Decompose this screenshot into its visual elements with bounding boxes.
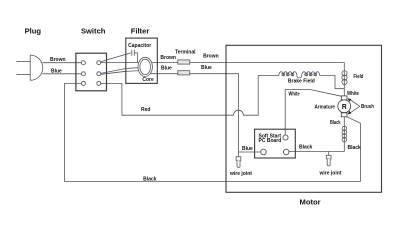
- terminal block upper: [178, 60, 190, 64]
- svg-text:Black: Black: [330, 120, 341, 126]
- wire brown plug-switch: [43, 62, 82, 64]
- wire switch to capacitor: [101, 53, 131, 62]
- wire blue PC board: [238, 151, 260, 153]
- wire brown terminal to field coil: [190, 63, 344, 71]
- wire blue switch-filter: [101, 67, 146, 74]
- switch S1: [76, 53, 107, 91]
- motor box: [226, 45, 382, 192]
- svg-text:White: White: [289, 91, 300, 97]
- svg-text:White: White: [347, 91, 359, 97]
- wire joint left: [236, 157, 241, 168]
- bottom brush: [341, 113, 347, 117]
- wire red switch-brake field: [101, 76, 279, 116]
- svg-text:Blue: Blue: [51, 69, 62, 75]
- svg-text:Plug: Plug: [25, 27, 42, 36]
- svg-text:Black: Black: [299, 145, 313, 151]
- svg-text:Black: Black: [348, 145, 362, 151]
- wire black coil to PC board: [289, 142, 344, 151]
- soft start PC board U1: [255, 129, 296, 158]
- svg-text:wire joint: wire joint: [229, 171, 252, 177]
- wire blue terminal to wire joint: [190, 74, 239, 157]
- svg-text:Blue: Blue: [161, 65, 172, 71]
- PC board pin left: [261, 149, 267, 155]
- svg-text:Blue: Blue: [242, 146, 253, 152]
- wire joint right: [326, 151, 331, 166]
- svg-text:Brake Field: Brake Field: [288, 78, 315, 84]
- filter box: [126, 38, 158, 83]
- wire blue plug-switch: [42, 73, 81, 75]
- svg-text:Terminal: Terminal: [175, 49, 196, 55]
- svg-text:Filter: Filter: [131, 26, 150, 35]
- svg-text:Brown: Brown: [160, 55, 176, 61]
- svg-text:Capacitor: Capacitor: [128, 43, 151, 49]
- svg-text:Switch: Switch: [81, 26, 106, 35]
- brush pointer arrows: [348, 98, 360, 114]
- top brush: [341, 96, 347, 100]
- svg-text:Armature: Armature: [315, 105, 336, 111]
- plug P1: [16, 55, 42, 80]
- wire black (switch to bottom brush, long return): [64, 83, 360, 181]
- brake field coil L2: [279, 72, 320, 78]
- svg-text:Brown: Brown: [50, 57, 66, 63]
- terminal block lower: [178, 71, 190, 75]
- svg-text:Red: Red: [141, 107, 150, 113]
- wire blue filter-terminal: [146, 73, 178, 75]
- wire brake field return: [320, 76, 344, 89]
- svg-text:R: R: [342, 104, 347, 111]
- armature series coil L4: [342, 126, 347, 143]
- armature M1: [338, 100, 351, 113]
- svg-text:Motor: Motor: [300, 197, 321, 206]
- PC board pin top: [283, 135, 288, 140]
- svg-text:Brush: Brush: [361, 104, 374, 110]
- svg-text:wire joint: wire joint: [319, 171, 342, 177]
- svg-text:Field: Field: [353, 74, 363, 80]
- wire white: [285, 90, 341, 135]
- svg-text:Blue: Blue: [201, 65, 212, 71]
- svg-text:Brown: Brown: [203, 53, 219, 59]
- wire black brush to series coil: [343, 117, 345, 126]
- svg-text:Black: Black: [143, 176, 157, 182]
- field coil L3: [342, 70, 347, 96]
- core L1: [138, 57, 152, 76]
- svg-text:PC Board: PC Board: [259, 138, 282, 144]
- capacitor C1: [132, 50, 138, 63]
- switch pins: [81, 61, 100, 86]
- wire brown switch-filter-terminal: [101, 62, 178, 64]
- PC board pin right: [283, 149, 289, 155]
- svg-text:Core: Core: [142, 77, 154, 83]
